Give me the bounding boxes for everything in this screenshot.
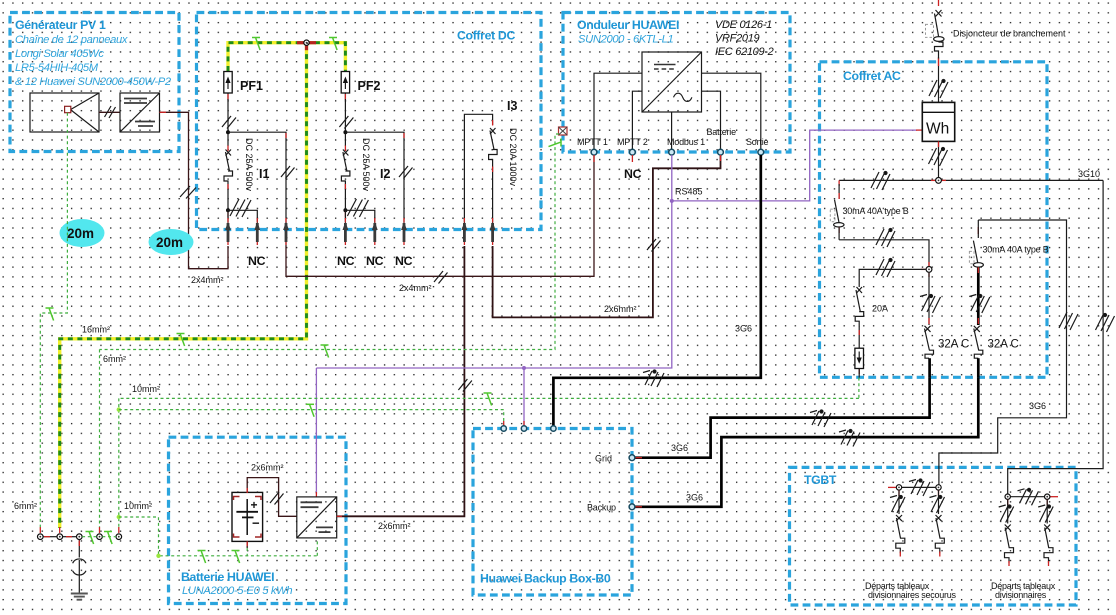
junction dot I2 top [343,130,347,134]
conductor marks (3+T+dot) on Backup wire [839,430,860,447]
bubble: 20m (PV dc cable) [149,229,194,255]
conductor mark (2) on pin7 drop [458,379,472,392]
TGBT group 2 bus [1008,496,1047,498]
earth node 5 [116,534,122,540]
svg-text:Batterie: Batterie [707,127,737,137]
svg-text:VRF2019: VRF2019 [715,33,760,45]
conductor mark (2) on battery dc pair [270,492,284,505]
conductor mark (2) on I1 feeder [222,116,236,129]
svg-text:30mA 40A type B: 30mA 40A type B [983,245,1049,255]
pin: Backup [629,504,635,510]
junction dot I1 bottom [226,208,230,212]
red tips on I2 branch [345,133,404,217]
Grid AC wire (3G6) from 32A C no1 to Backup box [635,377,930,457]
conductor marks (3+dot) on left AC bus [871,172,890,191]
svg-text:Modbus 1: Modbus 1 [667,137,705,147]
svg-text:NC: NC [395,254,413,268]
red tip below PF2 [344,94,346,100]
conductor marks (3+T+dot) on breaker 2b [1038,505,1053,523]
earth bus link 1-2 [43,536,57,538]
surge arrester PF2 [341,72,349,100]
earth bus link 3-4 [82,536,97,538]
conductor marks (3+T+dot) on breaker 1a [890,496,905,514]
purple junction dot (RS485 tap) [670,199,674,203]
svg-text:20m: 20m [156,235,183,250]
svg-text:LR5-54HIH-405M: LR5-54HIH-405M [15,62,99,74]
green tick on PV earth wire [46,308,54,321]
svg-text:DC 20A 1000v: DC 20A 1000v [508,128,518,187]
green stub battery bottom [246,548,248,556]
earth bus link 2-3 [63,536,77,538]
red tip below Wh meter [938,141,940,147]
red stub below Sortie pin [760,155,762,161]
svg-text:20m: 20m [67,226,94,241]
Sortie AC wire (3G6) to Backup box [553,155,760,426]
breaker I2 (switch + thermal) [341,150,350,190]
red tip above earth bus circle 4 [99,527,101,533]
bubble: 20m (PV earth cable) [60,219,105,247]
breaker I1 (switch + thermal) [224,150,233,190]
svg-text:VDE 0126-1: VDE 0126-1 [715,19,772,31]
red mark on electrode drop [78,541,80,547]
red tip at Wh meter entry [916,129,922,131]
dashed enclosure: Générateur PV 1 box [10,13,179,152]
surge arrester PF1 [224,72,232,100]
wire: sub node down to 32A C no1 [928,272,930,325]
svg-text:2x6mm²: 2x6mm² [604,304,637,314]
svg-text:DC 25A 500v: DC 25A 500v [244,138,254,192]
svg-text:20A: 20A [872,304,888,314]
pin 8 [490,218,496,245]
feeder to RCD2 from TGBT secours circuit [939,220,1067,485]
svg-text:LUNA2000-5-E0 5 kWh: LUNA2000-5-E0 5 kWh [182,585,292,597]
pin: Backup box AC in [551,426,556,431]
red tip above earth bus circle 2 [59,527,61,533]
green earth: inverter PE to 6mm² run [100,134,560,350]
earth bus link 4-5 [102,536,116,538]
red tip at Grid pin [635,457,642,459]
purple junction dot above backup box [522,366,526,370]
green earth: long 398 run from 20A arrester to left riser [119,397,859,399]
wire: RCD2 to 32A C no2 (thick) [977,267,980,325]
earth bus terminal circles [38,534,122,540]
conductor marks (3+T+dot) on Grid wire [810,410,831,427]
conductor marks (3+T+dot) on group2 bus [1018,488,1039,505]
earth node 4 [97,534,103,540]
breaker 32A C no2 [974,326,983,358]
svg-text:IEC 62109-2: IEC 62109-2 [715,46,774,58]
TGBT departure breaker 2b [1044,499,1053,566]
svg-text:I3: I3 [507,99,517,113]
svg-text:SUN2000 - 6KTL-L1: SUN2000 - 6KTL-L1 [578,34,674,46]
svg-text:3G6: 3G6 [686,493,703,503]
svg-text:Longi Solar 405Wc: Longi Solar 405Wc [15,48,104,60]
breaker I3 (switch + thermal) [489,128,498,222]
pin: MPTT 2 [630,149,636,155]
svg-text:divisionnaires secourus: divisionnaires secourus [868,590,957,600]
green tick on inverter PE drop [549,139,562,147]
wire: inverter to MPTT2 pin [632,91,642,149]
wire: electrode to ground [78,574,80,593]
switch I3 bridge [464,114,492,222]
svg-text:Batterie HUAWEI: Batterie HUAWEI [181,570,274,584]
wire: string1 pin3 to MPTT1 (2x4mm²) [286,155,594,276]
green earth: riser to battery DC/DC bottom [316,539,318,556]
node on PE bus [304,40,309,45]
wire: battery - to earth run [246,541,248,548]
pin 3 [283,218,289,245]
purple branch to Wh meter [672,130,917,201]
earth electrode symbol [73,559,86,575]
conductor marks (3+dot) on RCD1 output [876,229,895,248]
wire: inverter to Modbus1 pin [671,112,673,149]
conductor marks (3+T+dot) on group1 bus [909,479,930,496]
svg-text:RS485: RS485 [675,187,703,197]
node circle group2 right [1045,494,1050,499]
AC bus right: node to 3G10 feeder [942,179,1104,181]
green tick on 10mm² run [306,404,314,417]
red tips on I1 branch [228,133,286,217]
conductor mark (2) on string drop [281,166,295,179]
pin: MPTT 1 [591,149,597,155]
conductor marks (3+dot) on 20A branch bus [876,259,895,278]
conductor mark (2) on I2 feeder [339,116,353,129]
sub node circle [926,267,932,273]
pin 4 [343,218,349,245]
junction dot I2 bottom [343,208,347,212]
wire: I2 bottom junction to pin5 [345,210,374,222]
svg-text:32A C: 32A C [938,339,969,351]
svg-text:NC: NC [366,254,384,268]
dashed enclosure: Huawei Backup Box-B0 box [473,429,632,596]
wire: inverter to MPTT1 pin [594,73,642,149]
red tip battery top [246,488,248,493]
pin: Backup box COM [521,426,526,431]
red stub below Batterie pin [720,155,722,161]
conductor marks (3+dot) below Wh meter [929,148,948,167]
pin: Grid [629,455,635,461]
red tip at Backup pin [635,506,642,508]
RCD2 30mA 40A type B [969,220,983,267]
conductor mark (2) on PV dc wire [105,106,116,118]
stub: NC below MPTT2 [631,155,633,162]
purple drop to Backup box COM pin [523,368,525,426]
PV micro-inverter symbol [120,93,160,132]
RS485 purple wire: Modbus1 down and across [316,155,671,368]
pin 6 [401,218,407,245]
red tip 32A no1 top [928,318,930,324]
svg-text:2x6mm²: 2x6mm² [378,521,411,531]
svg-text:Chaîne de 12 panneaux: Chaîne de 12 panneaux [15,34,128,46]
green tick 2 on battery earth run [232,551,240,564]
conductor marks (3+T+dot) on 32A no2 [969,295,990,314]
wire: 32A no1 to AC box border (thick) [928,358,931,377]
svg-text:MPTT 1: MPTT 1 [577,137,608,147]
20A fuse-switch branch [855,287,864,348]
green tick 1 on battery earth run [198,551,206,564]
pin: Backup box earth [501,426,506,431]
battery symbol LUNA2000 [232,492,263,541]
node circle group1 left [896,485,901,490]
dashed enclosure: Batterie HUAWEI box [169,437,347,603]
pin 5 [372,218,378,245]
energy meter Wh [922,102,954,141]
RCD1 30mA 40A type B [830,180,844,239]
svg-text:10mm²: 10mm² [124,501,152,511]
svg-text:Générateur PV 1: Générateur PV 1 [15,18,106,32]
wire: battery + to DC/DC (2x6mm²) [247,478,297,517]
svg-text:3G6: 3G6 [1029,401,1046,411]
dashed enclosure: Coffret AC box [820,62,1048,378]
green tick on link 3-4 [86,532,94,545]
wire: I2 junction to right drop (pin6) [345,132,404,222]
wire: PF2 down to junction [344,99,346,146]
wire: I2 bottom to pin4 [344,189,346,222]
wire: pin8 to inverter Batterie port (2x6mm²) [493,155,721,317]
bright junction dot on green riser (409) [117,407,121,411]
wire: sub node to 20A branch [859,269,926,287]
PE riser (yellow/green) from DC box down to 16mm² run [60,45,307,529]
red stub left of group1 [888,486,896,488]
node circle group1 right [936,485,941,490]
bright dot at battery earth corner [156,554,160,558]
red tip 32A no2 [977,318,979,324]
node circle group2 left [1005,494,1010,499]
bright junction dot battery earth branch [117,515,121,519]
dashed enclosure: Coffret DC box [197,13,542,230]
green earth: 10mm² run to Backup box earth pin [119,410,504,426]
purple drop into battery DC/DC [315,368,317,494]
conductor marks (3+T+dot) on 32A no1 [920,295,941,314]
wire: panel to micro-inverter [99,111,120,113]
earth node 3 [77,534,83,540]
breaker 32A C no1 [925,326,934,358]
svg-text:NC: NC [337,254,355,268]
red stubs at distribution node [931,179,946,181]
wire: 32A no2 to AC box border (thick) [977,358,980,377]
earth wire: PV frame to earth bus (6mm²) [40,113,67,527]
red tip battery bottom [246,541,248,546]
svg-text:PF2: PF2 [358,79,381,93]
red tips on 20A branch [858,330,860,374]
conductor marks (3) at I1 bottom [230,199,251,217]
conductor mark (2) on I2 right drop [399,166,413,179]
pin 7 [462,218,468,245]
svg-text:32A C: 32A C [988,339,1019,351]
conductor marks (3) at I2 bottom [347,199,368,217]
red stub below MPTT1 pin [593,155,595,162]
svg-text:Huawei Backup Box-B0: Huawei Backup Box-B0 [480,572,611,586]
green earth: riser joining 398 and 409 runs [118,398,120,527]
green earth: branch to battery enclosure [119,517,317,556]
ground symbol [71,594,88,600]
earth node 1 [38,534,44,540]
svg-text:I2: I2 [380,167,390,181]
svg-text:3G10: 3G10 [1078,169,1100,179]
service drop: red tip at top [938,0,940,6]
conductor marks (3+dot) above Wh meter [929,80,948,99]
conductor mark (2) on 2x4mm² run [434,271,448,284]
svg-text:Coffret AC: Coffret AC [843,69,901,83]
red tip DC/DC right [337,515,342,517]
svg-text:+: + [251,498,258,512]
TGBT group 1 bus [899,486,939,488]
wire: I1 bottom to pin1 [227,189,229,222]
red mark crossing AC box border [938,59,940,67]
svg-text:2x4mm²: 2x4mm² [399,283,432,293]
green tick on link 4-5 [104,532,112,545]
svg-text:TGBT: TGBT [804,473,837,487]
svg-text:6mm²: 6mm² [14,501,37,511]
svg-text:−: − [252,516,260,531]
PV panel symbol [30,93,99,132]
red stub right of group2 [1050,496,1058,498]
PE terminal on inverter left border [559,127,568,135]
earth electrode drop [78,540,80,558]
pin: Sortie [758,149,764,155]
svg-text:2x6mm²: 2x6mm² [251,463,284,473]
TGBT departure breaker 2a [1005,499,1014,566]
svg-text:& 12 Huawei SUN2000-450W-P2: & 12 Huawei SUN2000-450W-P2 [15,76,172,88]
wire: inverter to Batterie pin [702,91,721,149]
wire: Wh meter down to distribution node [938,141,940,177]
pin 2 [254,218,260,245]
svg-text:Coffret DC: Coffret DC [457,29,515,43]
svg-text:3G6: 3G6 [671,443,688,453]
TGBT departure breaker 1b [935,490,944,556]
conductor marks (3+dot) on 3G10 feeder [1096,314,1115,333]
red tip at battery DC/DC top [315,492,317,497]
svg-text:NC: NC [624,167,642,181]
Backup AC wire (3G6) from 32A C no2 to Backup box [635,377,978,507]
wire: breaker to Wh meter [938,57,940,102]
svg-text:30mA 40A type B: 30mA 40A type B [843,206,909,216]
conductor marks (3+T+dot) on breaker 1b [930,496,945,514]
TGBT departure breaker 1a [896,490,905,556]
svg-text:Grid: Grid [595,454,612,464]
red tip above earth bus circle 1 [39,527,41,533]
inverter symbol (DC/AC) [642,52,702,112]
green tick on 6mm² run [321,345,329,358]
earth node 2 [57,534,63,540]
DC box terminal pins (8) crossing bottom border [225,218,495,245]
Disjoncteur de branchement breaker [926,10,945,59]
svg-text:DC 25A 500v: DC 25A 500v [361,138,371,192]
PE bus (yellow/green) top of Coffret DC with drops to PF1 PF2 [228,43,345,71]
svg-text:Sortie: Sortie [746,137,769,147]
svg-text:2x4mm²: 2x4mm² [191,275,224,285]
conductor marks (3+T+dot) on breaker 2a [999,505,1014,523]
red stubs above backup box pins [504,421,524,426]
conductor mark (2) on battery link riser [647,239,661,252]
red tip at earth bus circle 5 [118,527,120,533]
conductor mark (2) on 20m cable [180,186,196,199]
red tip below RCD2 [977,267,979,273]
green tick on PE bus right [329,38,337,51]
red tip below PF1 [227,94,229,100]
svg-text:NC: NC [248,254,266,268]
red segments near PE node [297,43,316,51]
red tip at inverter output [160,111,167,113]
dashed enclosure: TGBT box [790,467,1077,605]
svg-text:Onduleur HUAWEI: Onduleur HUAWEI [577,18,679,32]
svg-text:Backup: Backup [587,503,616,513]
wire: I1 junction to MPTT1 string drop [228,132,286,246]
green earth drop from 20A arrester [858,378,860,399]
red tips on I3 branch [492,120,494,172]
svg-text:I1: I1 [259,167,269,181]
surge arrester on 20A branch [855,348,864,377]
svg-text:Disjoncteur de branchement: Disjoncteur de branchement [953,29,1066,39]
wire: inverter to Sortie pin [702,73,761,149]
conductor marks (3+T+dot) on Sortie wire [643,370,664,387]
svg-text:6mm²: 6mm² [103,354,126,364]
wire: I1 bottom junction to pin2 [228,210,257,222]
conductor marks (3) on secours feeder [1059,312,1078,330]
green tick on PE bus left [252,38,260,51]
svg-text:16mm²: 16mm² [82,325,110,335]
pin: Batterie [718,149,724,155]
green tick on long earth run [484,393,492,406]
green earth: 6mm² drop to earth bus circle 4 [99,350,101,528]
svg-text:Wh: Wh [926,121,949,138]
green tick on 16mm² run [177,334,185,347]
battery DC/DC converter symbol [297,497,337,538]
red stubs at sub node [921,262,929,277]
distribution node circle [936,178,942,184]
svg-text:MPTT 2: MPTT 2 [617,137,648,147]
svg-text:PF1: PF1 [240,79,263,93]
pin 1 [225,218,231,245]
wire: RCD1 output bus [839,240,929,267]
dashed enclosure: Onduleur HUAWEI box [563,13,790,153]
3G10 feeder to TGBT normal circuits [1008,180,1103,494]
wire: PF1 down to junction [227,99,229,146]
AC bus left: node to RCD1 [839,179,935,181]
pin: Modbus 1 [669,149,675,155]
svg-text:10mm²: 10mm² [132,384,160,394]
junction dot I1 top [226,130,230,134]
wire: pin7 down to battery DC/DC (2x6mm²) [337,246,464,516]
wire: micro-inverter output to 20m cable [160,112,229,268]
svg-text:3G6: 3G6 [735,324,752,334]
svg-text:divisionnaires: divisionnaires [995,590,1047,600]
